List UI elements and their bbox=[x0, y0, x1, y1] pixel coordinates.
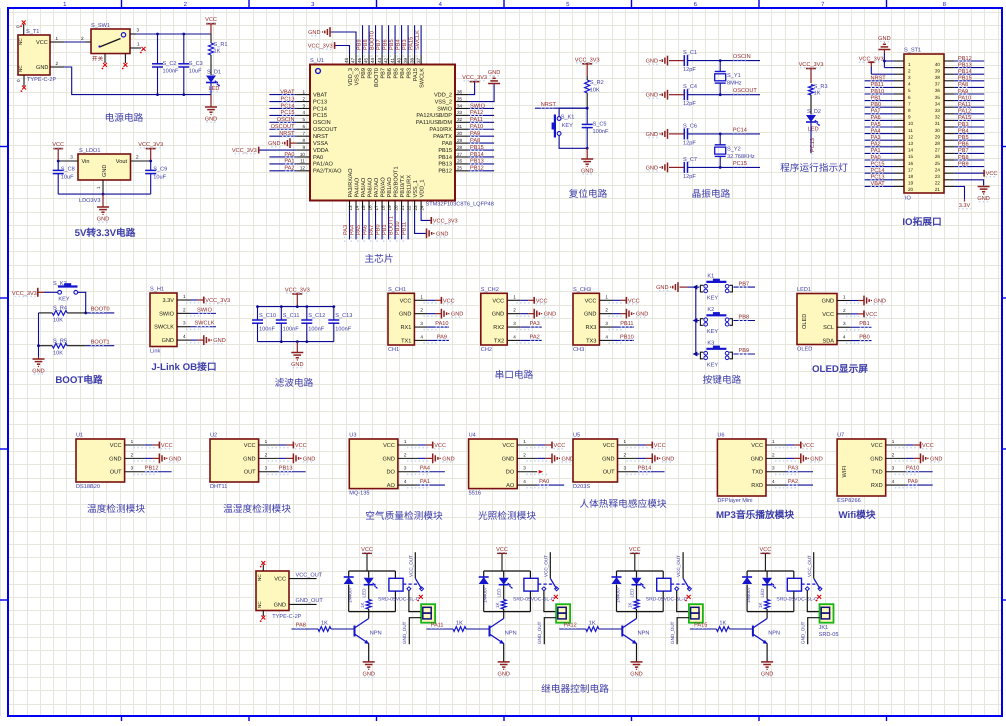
wire and net label PA11 at U1 pin 32 bbox=[469, 117, 494, 123]
svg-text:18: 18 bbox=[908, 174, 914, 179]
svg-text:VCC_OUT: VCC_OUT bbox=[807, 555, 812, 577]
wire and net label PA9 at U7 pin 4 bbox=[906, 479, 933, 485]
svg-text:23: 23 bbox=[413, 205, 418, 211]
pin 19 PB1/AO of U1 bbox=[386, 177, 393, 211]
wire and net label PA10 at S_ST1 pin 34 bbox=[955, 95, 985, 101]
svg-text:TX2: TX2 bbox=[494, 338, 504, 344]
pin 4 TX1 of S_CH1 bbox=[401, 334, 437, 344]
svg-text:SDA: SDA bbox=[822, 339, 834, 345]
svg-text:2: 2 bbox=[420, 308, 423, 313]
svg-text:VCC: VCC bbox=[52, 142, 64, 148]
svg-text:GND: GND bbox=[488, 70, 500, 76]
svg-text:GND: GND bbox=[169, 456, 181, 462]
svg-text:25: 25 bbox=[935, 161, 941, 166]
svg-text:17: 17 bbox=[374, 205, 379, 211]
svg-text:1: 1 bbox=[183, 294, 186, 299]
svg-text:DO: DO bbox=[506, 470, 515, 476]
svg-text:S_CH1: S_CH1 bbox=[388, 287, 406, 293]
svg-text:VCC: VCC bbox=[244, 443, 256, 449]
svg-text:U3: U3 bbox=[349, 433, 356, 439]
svg-text:2: 2 bbox=[513, 308, 516, 313]
svg-text:0: 0 bbox=[16, 25, 21, 28]
svg-text:PA1/AO: PA1/AO bbox=[313, 161, 333, 168]
svg-text:GND: GND bbox=[870, 456, 882, 462]
wire GND_OUT terminal cell 3 bbox=[670, 618, 689, 645]
svg-text:1: 1 bbox=[624, 439, 627, 444]
svg-text:S_R5: S_R5 bbox=[53, 338, 67, 344]
svg-text:GND: GND bbox=[874, 299, 886, 305]
svg-text:PB14: PB14 bbox=[470, 152, 484, 158]
svg-text:VCC_OUT: VCC_OUT bbox=[296, 572, 323, 578]
svg-text:PB15: PB15 bbox=[958, 76, 972, 82]
svg-text:VCC: VCC bbox=[496, 547, 508, 553]
pin 4 SDA of LED1 bbox=[822, 335, 860, 345]
ground at U1 pin 8 VSSA bbox=[268, 138, 296, 148]
svg-text:41: 41 bbox=[390, 57, 395, 63]
wire and net label PA15 at U1 pin 38 bbox=[408, 25, 414, 59]
svg-text:VCC: VCC bbox=[361, 547, 373, 553]
svg-text:晶振电路: 晶振电路 bbox=[692, 188, 731, 200]
svg-text:NPN: NPN bbox=[370, 631, 382, 637]
capacitor S_C3 10uF bbox=[178, 34, 203, 95]
wire and net label PA8 at U1 pin 29 bbox=[469, 138, 494, 144]
pin 29 PA8 of U1 bbox=[442, 138, 469, 147]
svg-text:VCC: VCC bbox=[603, 443, 615, 449]
svg-text:U5: U5 bbox=[573, 433, 580, 439]
svg-text:PB13: PB13 bbox=[279, 466, 293, 472]
power port VCC_3V3 at S_H1 pin 1 bbox=[190, 297, 230, 304]
wire and net label PB12 at U1 pin 3 bbox=[145, 466, 172, 472]
pin 44 BOOT0 of U1 bbox=[370, 54, 380, 87]
svg-text:Vin: Vin bbox=[82, 158, 90, 165]
svg-text:3: 3 bbox=[892, 466, 895, 471]
power port VCC power circuit bbox=[205, 17, 217, 34]
connector U3 body air quality module bbox=[349, 433, 398, 497]
svg-text:空气质量检测模块: 空气质量检测模块 bbox=[365, 510, 443, 522]
svg-text:PA7: PA7 bbox=[369, 225, 375, 235]
svg-text:S_Y2: S_Y2 bbox=[727, 146, 741, 152]
pin no-connect top of TYPE-C-2P bbox=[260, 561, 265, 571]
svg-text:13: 13 bbox=[908, 141, 914, 146]
svg-text:24: 24 bbox=[935, 167, 941, 172]
svg-text:22: 22 bbox=[406, 205, 411, 211]
pin 3 TXD of U7 bbox=[872, 466, 917, 476]
pin 4 AO of U3 bbox=[387, 479, 429, 489]
pin 2 GND of U1 bbox=[109, 452, 155, 462]
svg-text:PB11: PB11 bbox=[871, 82, 884, 88]
connector U5 body PIR module bbox=[573, 433, 618, 491]
svg-text:光照检测模块: 光照检测模块 bbox=[478, 510, 536, 522]
svg-text:PB4: PB4 bbox=[400, 68, 406, 79]
pin 22 of S_ST1 bbox=[935, 180, 955, 186]
svg-text:1K: 1K bbox=[321, 621, 328, 627]
svg-text:100nF: 100nF bbox=[335, 327, 351, 333]
pin 47 VSS_3 of U1 bbox=[351, 54, 361, 85]
svg-text:PA12: PA12 bbox=[470, 110, 483, 116]
diode 1N4007 relay cell 2 bbox=[479, 571, 489, 612]
svg-text:K3: K3 bbox=[707, 341, 714, 347]
svg-text:4: 4 bbox=[513, 334, 516, 339]
svg-text:GND_OUT: GND_OUT bbox=[537, 621, 542, 644]
svg-text:PB9: PB9 bbox=[958, 161, 969, 167]
svg-text:GND: GND bbox=[602, 456, 614, 462]
terminal labels JK1 SRD-05 bbox=[819, 625, 839, 638]
svg-text:VCC: VCC bbox=[866, 312, 878, 318]
pin 32 PA11/USB/DM of U1 bbox=[416, 117, 469, 126]
pin 6 OSCOUT of U1 bbox=[296, 124, 337, 133]
pin 10 PA0 of U1 bbox=[296, 152, 323, 161]
svg-text:40: 40 bbox=[396, 57, 401, 63]
svg-text:17: 17 bbox=[908, 167, 914, 172]
svg-text:GND: GND bbox=[205, 117, 217, 123]
wire and net label PA1 at S_ST1 pin 15 bbox=[865, 148, 894, 154]
ground at U4 pin 2 bbox=[537, 453, 574, 463]
power port VCC relay cell 4 bbox=[759, 547, 771, 571]
resistor 1K base cell 3 bbox=[586, 621, 623, 632]
svg-text:VCC: VCC bbox=[295, 443, 307, 449]
svg-text:SWIO: SWIO bbox=[470, 103, 486, 109]
ground at U1 pin 47 VSS_3 bbox=[308, 27, 356, 54]
wire keys left rail bbox=[687, 285, 697, 357]
svg-text:29: 29 bbox=[935, 134, 941, 139]
svg-text:GND: GND bbox=[822, 299, 834, 305]
svg-text:4: 4 bbox=[843, 335, 846, 340]
transistor Q1 NPN relay cell 1 bbox=[355, 612, 382, 644]
svg-text:31: 31 bbox=[457, 124, 463, 129]
pin 9 VDDA of U1 bbox=[296, 145, 329, 154]
wire and net label PA3 at S_CH2 pin 3 bbox=[520, 321, 542, 327]
svg-text:12pF: 12pF bbox=[683, 67, 696, 73]
power port VCC_3V3 at U1 pin 24 VDD_1 bbox=[421, 211, 458, 225]
svg-text:12: 12 bbox=[908, 134, 914, 139]
wire relay bottom rail cell 4 bbox=[747, 611, 794, 613]
svg-text:3: 3 bbox=[265, 466, 268, 471]
svg-text:PA9: PA9 bbox=[908, 479, 918, 485]
pin 11 of S_ST1 bbox=[894, 127, 913, 133]
svg-text:串口电路: 串口电路 bbox=[495, 369, 534, 381]
svg-text:32: 32 bbox=[935, 115, 941, 120]
svg-text:VCC: VCC bbox=[585, 298, 597, 304]
svg-text:3: 3 bbox=[420, 321, 423, 326]
pin 25 of S_ST1 bbox=[935, 160, 955, 166]
svg-text:PA8: PA8 bbox=[470, 138, 480, 144]
svg-text:21: 21 bbox=[935, 187, 941, 192]
svg-text:S_ST1: S_ST1 bbox=[904, 48, 921, 54]
svg-text:34: 34 bbox=[935, 101, 941, 106]
svg-text:S_C12: S_C12 bbox=[308, 313, 325, 319]
svg-text:GND_OUT: GND_OUT bbox=[296, 598, 324, 604]
svg-text:S_K1: S_K1 bbox=[561, 114, 575, 120]
svg-text:VCC: VCC bbox=[629, 547, 641, 553]
svg-text:S_R3: S_R3 bbox=[814, 84, 828, 90]
svg-text:PB11: PB11 bbox=[401, 222, 407, 235]
pin 35 VSS_2 of U1 bbox=[435, 96, 469, 105]
svg-text:NC: NC bbox=[18, 38, 23, 45]
svg-text:GND: GND bbox=[636, 312, 648, 318]
svg-text:GND: GND bbox=[382, 456, 394, 462]
svg-text:PB13: PB13 bbox=[470, 159, 484, 165]
resistor S_R1 1K bbox=[209, 34, 228, 75]
svg-text:S_C6: S_C6 bbox=[683, 123, 697, 129]
pin 3 RX3 of S_CH3 bbox=[586, 321, 623, 331]
svg-text:PA7: PA7 bbox=[871, 109, 881, 115]
connector S_CH1 body serial CH1 bbox=[388, 287, 414, 353]
svg-text:NRST: NRST bbox=[279, 131, 295, 137]
caption serial circuit bbox=[495, 369, 534, 381]
LED S_D1 bbox=[206, 70, 221, 95]
svg-text:U1: U1 bbox=[76, 433, 83, 439]
svg-text:GND: GND bbox=[581, 169, 593, 175]
pin 4 of S_ST1 bbox=[894, 81, 911, 87]
svg-text:6: 6 bbox=[302, 124, 305, 129]
svg-text:3: 3 bbox=[843, 321, 846, 326]
svg-text:3: 3 bbox=[772, 466, 775, 471]
svg-text:PA12: PA12 bbox=[564, 623, 577, 629]
svg-text:OSCOUT: OSCOUT bbox=[313, 127, 338, 133]
pin 14 PA4/AO of U1 bbox=[353, 177, 360, 211]
svg-text:1K: 1K bbox=[495, 601, 500, 608]
svg-text:RX2: RX2 bbox=[493, 325, 504, 331]
svg-text:2: 2 bbox=[892, 452, 895, 457]
svg-text:28: 28 bbox=[935, 141, 941, 146]
svg-text:JK1: JK1 bbox=[819, 625, 829, 631]
svg-text:23: 23 bbox=[935, 174, 941, 179]
svg-text:PA12/USB/DP: PA12/USB/DP bbox=[416, 112, 452, 119]
svg-text:VCC_3V3: VCC_3V3 bbox=[232, 148, 257, 154]
no connect at U4 pin 3 bbox=[539, 470, 544, 474]
ground at U7 pin 2 bbox=[906, 453, 943, 463]
wire K2 left to rail bbox=[696, 320, 700, 322]
svg-text:1K: 1K bbox=[758, 601, 763, 608]
svg-text:VBAT: VBAT bbox=[280, 89, 295, 95]
svg-text:10K: 10K bbox=[590, 88, 600, 94]
pin 2 of S_SW1 bbox=[86, 41, 92, 43]
svg-text:3: 3 bbox=[404, 466, 407, 471]
pin 1 VCC of S_CH1 bbox=[400, 294, 438, 304]
svg-text:BOOT1: BOOT1 bbox=[388, 216, 394, 235]
svg-text:VCC_3V3: VCC_3V3 bbox=[308, 44, 333, 50]
svg-text:PB6: PB6 bbox=[387, 68, 393, 79]
svg-text:10: 10 bbox=[300, 152, 306, 157]
svg-text:PA9: PA9 bbox=[437, 334, 447, 340]
svg-text:3: 3 bbox=[908, 75, 911, 80]
svg-text:1K: 1K bbox=[719, 621, 726, 627]
svg-text:13: 13 bbox=[348, 205, 353, 211]
svg-text:VCC: VCC bbox=[161, 443, 173, 449]
svg-text:10uF: 10uF bbox=[61, 175, 74, 181]
pin 1 GND of LED1 bbox=[822, 295, 860, 305]
wire and net label PB14 at U1 pin 27 bbox=[469, 152, 494, 158]
svg-text:PA9: PA9 bbox=[958, 89, 968, 95]
wire and net label PB13 at U1 pin 26 bbox=[469, 159, 494, 165]
svg-text:OLED显示屏: OLED显示屏 bbox=[812, 364, 868, 375]
svg-text:PB1: PB1 bbox=[871, 95, 882, 101]
pin 39 of S_ST1 bbox=[935, 68, 955, 74]
svg-text:PB15: PB15 bbox=[470, 145, 484, 151]
pin 36 VDD_2 of U1 bbox=[434, 89, 469, 98]
capacitor S_C8 10uF bbox=[53, 160, 75, 195]
svg-text:PC14: PC14 bbox=[733, 127, 747, 133]
svg-text:OSCOUT: OSCOUT bbox=[271, 124, 296, 130]
ground at U1 pin 2 bbox=[145, 453, 182, 463]
wire relay common to terminal cell 3 bbox=[677, 591, 689, 612]
relay contact and VCC_OUT cell 4 bbox=[802, 552, 822, 601]
wire and net label OSCOUT at U1 pin 6 bbox=[269, 124, 296, 130]
svg-text:RXD: RXD bbox=[871, 483, 883, 489]
svg-text:VSS_3: VSS_3 bbox=[354, 68, 360, 85]
svg-text:16: 16 bbox=[367, 205, 372, 211]
connector LED1 body OLED display bbox=[797, 287, 837, 353]
relay coil SRD-05VDC-SL-C cell 4 bbox=[776, 571, 818, 612]
pin 8 of S_ST1 bbox=[894, 107, 911, 113]
svg-text:4: 4 bbox=[892, 479, 895, 484]
svg-text:BOOT1: BOOT1 bbox=[91, 340, 110, 346]
svg-text:2: 2 bbox=[624, 452, 627, 457]
svg-text:5: 5 bbox=[908, 88, 911, 93]
wire relay common to terminal cell 2 bbox=[544, 591, 556, 612]
svg-text:LDO3V3: LDO3V3 bbox=[79, 198, 100, 204]
wire and net label PB13 at U2 pin 3 bbox=[279, 466, 306, 472]
svg-text:PA4: PA4 bbox=[871, 128, 881, 134]
svg-text:VBAT: VBAT bbox=[313, 92, 328, 98]
svg-text:PA11/USB/DM: PA11/USB/DM bbox=[416, 119, 453, 126]
svg-text:GND: GND bbox=[36, 65, 48, 71]
svg-text:45: 45 bbox=[364, 57, 369, 63]
svg-text:SWIO: SWIO bbox=[437, 106, 453, 112]
wire and net label PB14 at S_ST1 pin 38 bbox=[955, 69, 985, 75]
pin 26 of S_ST1 bbox=[935, 153, 955, 159]
wire and net label PA11 at S_ST1 pin 33 bbox=[955, 102, 985, 108]
svg-text:100nF: 100nF bbox=[163, 68, 179, 74]
pin 3 Vin of S_LDO1 bbox=[58, 155, 78, 162]
svg-text:2: 2 bbox=[908, 68, 911, 73]
power port VCC at U3 pin 1 bbox=[418, 442, 446, 449]
ground filter bbox=[291, 342, 303, 368]
svg-text:VCC: VCC bbox=[759, 547, 771, 553]
svg-text:VCC: VCC bbox=[802, 443, 814, 449]
svg-text:LED: LED bbox=[760, 588, 765, 598]
pin 2 SWIO of S_H1 bbox=[159, 307, 200, 317]
wire and net label PB11 at S_CH3 pin 3 bbox=[612, 321, 634, 327]
svg-text:S_CH3: S_CH3 bbox=[573, 287, 591, 293]
svg-text:S_R1: S_R1 bbox=[214, 42, 228, 48]
svg-text:40: 40 bbox=[935, 62, 941, 67]
svg-text:NPN: NPN bbox=[768, 631, 780, 637]
svg-text:VCC: VCC bbox=[434, 443, 446, 449]
svg-text:SWIO: SWIO bbox=[197, 307, 213, 313]
svg-text:PB7: PB7 bbox=[380, 68, 386, 79]
svg-text:CH2: CH2 bbox=[481, 347, 492, 353]
svg-text:PC15: PC15 bbox=[871, 161, 885, 167]
crystal S_Y2 32.768KHz bbox=[715, 133, 755, 169]
svg-text:BOOT0: BOOT0 bbox=[91, 307, 110, 313]
caption relay control circuit bbox=[541, 683, 609, 695]
svg-text:PA7/AO: PA7/AO bbox=[373, 177, 380, 197]
caption humidity module bbox=[223, 503, 291, 515]
svg-text:47: 47 bbox=[351, 57, 356, 63]
svg-text:PB1: PB1 bbox=[382, 224, 388, 235]
svg-text:PC15: PC15 bbox=[733, 161, 747, 167]
svg-text:3: 3 bbox=[605, 321, 608, 326]
svg-text:PB5: PB5 bbox=[393, 68, 399, 79]
svg-text:VCC: VCC bbox=[628, 298, 640, 304]
svg-text:8: 8 bbox=[302, 138, 305, 143]
svg-text:VCC_OUT: VCC_OUT bbox=[408, 555, 413, 577]
svg-text:PA8: PA8 bbox=[958, 82, 968, 88]
svg-text:GND: GND bbox=[810, 456, 822, 462]
svg-text:19: 19 bbox=[908, 181, 914, 186]
svg-text:PA4: PA4 bbox=[420, 466, 430, 472]
pin 18 of S_ST1 bbox=[894, 173, 914, 179]
wire S_T1 VCC to switch bbox=[64, 36, 86, 42]
svg-text:PA2: PA2 bbox=[871, 142, 881, 148]
pin 20 of S_ST1 bbox=[894, 186, 914, 192]
svg-text:4: 4 bbox=[183, 334, 186, 339]
svg-text:VCC: VCC bbox=[502, 443, 514, 449]
svg-text:11: 11 bbox=[908, 128, 913, 133]
wire and net label PB6 at U1 pin 42 bbox=[382, 25, 388, 59]
svg-text:1: 1 bbox=[131, 439, 134, 444]
svg-text:33: 33 bbox=[935, 108, 941, 113]
svg-text:PA2/TX/AO: PA2/TX/AO bbox=[313, 168, 342, 175]
svg-text:PB3: PB3 bbox=[958, 122, 969, 128]
svg-text:PB10: PB10 bbox=[395, 221, 401, 235]
svg-text:K2: K2 bbox=[707, 307, 714, 313]
switch S_SW1 bbox=[91, 23, 130, 63]
caption 5V to 3.3V circuit bbox=[75, 227, 136, 239]
ground at S_CH2 pin 2 bbox=[520, 309, 556, 319]
svg-text:KEY: KEY bbox=[707, 329, 718, 335]
connector S_ST1 body bbox=[904, 48, 944, 202]
svg-text:1: 1 bbox=[420, 294, 423, 299]
wire and net label PA4 at U1 pin 14 bbox=[349, 211, 356, 244]
pin 2 GND of S_CH3 bbox=[584, 308, 622, 318]
ground keys circuit bbox=[656, 282, 687, 292]
svg-text:TYPE-C-2P: TYPE-C-2P bbox=[27, 77, 56, 83]
svg-text:27: 27 bbox=[457, 152, 463, 157]
wire and net label PA15 at S_ST1 pin 31 bbox=[955, 115, 985, 121]
LED relay cell 2 bbox=[497, 571, 513, 598]
svg-text:GND: GND bbox=[878, 36, 890, 42]
svg-text:21: 21 bbox=[400, 205, 405, 211]
pin 20 PB2/BOOT1 of U1 bbox=[392, 166, 399, 210]
svg-text:9: 9 bbox=[302, 145, 305, 150]
wire and net label PA3 at S_ST1 pin 13 bbox=[865, 135, 894, 141]
resistor S_R3 1K bbox=[809, 84, 828, 115]
svg-text:TXD: TXD bbox=[872, 470, 883, 476]
svg-text:PA2: PA2 bbox=[788, 479, 798, 485]
svg-text:VCC: VCC bbox=[922, 443, 934, 449]
wire LDO ground rail bbox=[58, 193, 151, 196]
svg-text:9: 9 bbox=[908, 115, 911, 120]
svg-text:S_CH2: S_CH2 bbox=[481, 287, 499, 293]
wire and net label PB15 at S_ST1 pin 37 bbox=[955, 76, 985, 82]
svg-text:VDD_3: VDD_3 bbox=[348, 68, 354, 86]
svg-text:PA10: PA10 bbox=[906, 466, 919, 472]
pin 46 PB9 of U1 bbox=[357, 54, 367, 78]
wire and net label NRST at U1 pin 7 bbox=[269, 131, 296, 137]
pin 15 of S_ST1 bbox=[894, 153, 914, 159]
svg-text:SRD-05VDC-SL-C: SRD-05VDC-SL-C bbox=[776, 597, 818, 603]
svg-text:PB4: PB4 bbox=[958, 128, 969, 134]
svg-text:OSCOUT: OSCOUT bbox=[733, 88, 758, 94]
svg-text:VCC_3V3: VCC_3V3 bbox=[285, 287, 310, 293]
svg-text:PB12: PB12 bbox=[438, 169, 452, 175]
ground LDO circuit bbox=[97, 194, 109, 222]
svg-text:STM32F103C8T6_LQFP48: STM32F103C8T6_LQFP48 bbox=[426, 202, 494, 208]
svg-text:NC: NC bbox=[257, 601, 262, 608]
svg-text:S_C8: S_C8 bbox=[61, 167, 75, 173]
